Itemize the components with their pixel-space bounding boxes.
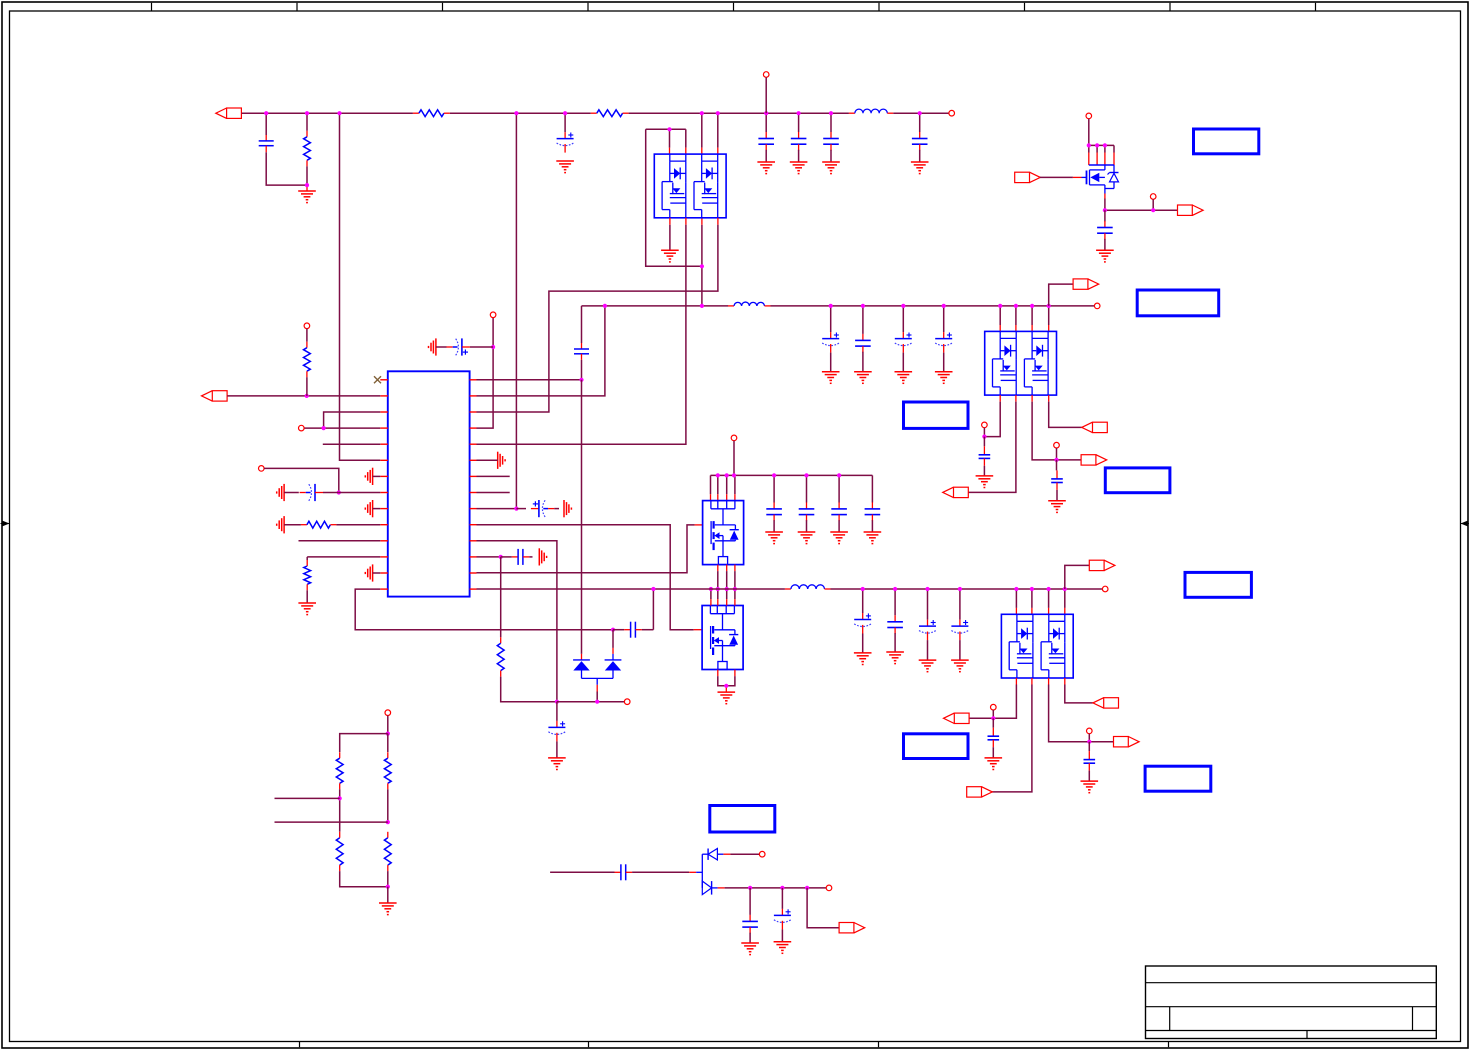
wire bus2 segment 1 [582,305,729,307]
junction left branch tap [338,796,342,800]
wire divider left branch [340,734,388,752]
diode D1 [573,660,590,679]
capacitor C26 (bus3 x894) [887,589,903,652]
junction Q2 fanout b [1095,143,1099,147]
connector Q6 out c [1114,737,1140,747]
junction bus2/C9 [829,304,833,308]
wire bus2 segment 2 [771,305,1095,307]
junction bus3/q d [733,587,737,591]
wire term drop [1152,199,1154,210]
junction VIN/Q1p3 [700,111,704,115]
junction rail/Q4 b [725,473,729,477]
inductor L3 (bus3) [785,585,831,589]
capacitor C7 (Q2 source) [1097,210,1113,250]
wire diode anode bus [582,678,614,701]
terminal above Q6 node c [1087,728,1093,734]
ground below C25 [854,653,872,665]
wire Q2 source to connector [1105,209,1178,211]
connector Q6 out a (left) [944,713,970,723]
ground below C7 [1096,250,1114,262]
wire R11 down x556 [477,541,557,702]
junction bus3/C26 [893,587,897,591]
junction bus3/q b [716,587,720,591]
wire tap a [275,797,340,799]
wire bus3 to Q5 pins [711,589,735,606]
junction R12 [499,555,503,559]
resistor R1 (series, top bus) [413,110,450,117]
wire Q1 gate loop top [646,129,686,154]
capacitor C3 (top bus x765) [758,113,774,162]
capacitor C16 (R4 net) [447,338,494,355]
junction bus3/C25 [861,587,865,591]
junction bus3/C20 [651,587,655,591]
capacitor C30 (below Q6 c) [1084,742,1096,781]
junction D4/out [805,886,809,890]
label box LBL2 [1137,290,1219,316]
ground below C13 [976,476,994,488]
capacitor C32 [742,888,758,943]
ground below C32 [741,943,759,955]
junction L3/L4 [322,426,326,430]
connector cp out [839,923,865,933]
wire Q2 source down [1104,194,1106,211]
connector IC L2 (left) [202,391,228,401]
terminal above Q6 node a [991,704,997,710]
junction Q3 node b [1054,458,1058,462]
ground L8 cap [277,484,299,501]
terminal D3 out [759,851,765,857]
resistor R10 (right upper) [384,734,391,823]
wire rail to Q4 pins [711,475,735,500]
junction rail/C21 [772,473,776,477]
junction bus2/C11 [901,304,905,308]
IC U1 left pin stubs [380,380,388,589]
junction VIN/C6 [918,111,922,115]
capacitor C13 (below node a) [979,437,991,476]
transistor Q3 (dual P-MOSFET pack) [985,331,1057,395]
junction wireC/D2 [611,628,615,632]
connector bus2 out [1073,279,1099,289]
bottom border zone ticks [300,1042,1169,1048]
ground below C27 [919,660,937,672]
wire Q3 pin3b node [1032,395,1081,460]
junction bus2/Q1pin3b [700,304,704,308]
ground below C11 [895,372,913,384]
wire Q1 pin1b to ground [669,218,671,251]
resistor R6 (pin L12 to gnd) [304,560,311,603]
wire D3 out [723,853,759,855]
capacitor C25 (bus3 x862) [854,589,871,653]
junction divider top [386,732,390,736]
wire node y701 [557,701,625,703]
junction VIN/x516 [514,111,518,115]
wire L8 branch [264,468,339,492]
capacitor C23 (mid rail) [831,475,847,532]
ground below C26 [886,652,904,664]
resistor R11 (right lower) [384,832,391,887]
capacitor C29 (below Q6 a) [988,718,1000,758]
resistor R7 (R12 net) [497,557,557,702]
capacitor C31 (series cp) [615,864,697,880]
connector P1 (VIN, left) [216,108,242,118]
ground C18 [539,548,546,565]
ground below R3 [298,191,316,203]
wire R8 stub [477,492,510,494]
ground below C4 [790,162,808,174]
diode D4 (lower) [702,881,717,895]
label box LBL5 [1185,572,1251,597]
terminal above Q3 node a [982,422,988,428]
ground at pin R6 [477,452,506,469]
wire VIN bus segment 3 [629,112,849,114]
wire Q6 pin4b to connector [1065,678,1093,703]
wire L2 [227,395,380,397]
terminal Q2 drain top [1086,113,1092,119]
ground below divider [379,903,397,915]
wire R10 to Q5 gate [477,525,703,630]
connector Q3 out c (left) [1082,422,1108,432]
junction right branch tap [386,820,390,824]
junction x556/merge [555,700,559,704]
wire Q2 drain fanout [1089,145,1114,165]
left border centre arrow [1,521,10,527]
wire Q6 pin3b node [1049,678,1114,742]
capacitor C12 (bus2 x943) [935,306,952,372]
connector bus3 out [1089,560,1115,570]
junction bus3/q a [709,587,713,591]
terminal divider top [385,710,391,716]
title block [1146,966,1437,1039]
terminal bus3 right end [1102,586,1108,592]
right border centre arrow [1461,521,1469,527]
ground below C9 [822,372,840,384]
junction bus3/Q6 p3 [1047,587,1051,591]
capacitor C8 (series x581) [574,306,589,380]
junction VIN/C5 [829,111,833,115]
capacitor C2 (electrolytic x565) [557,113,574,152]
wire L8 to pin [339,492,381,494]
capacitor C28 (bus3 x959) [951,589,968,660]
terminal above C3 [763,72,769,78]
label box LBL7 [1145,766,1211,791]
junction VIN/Q1p4 [716,111,720,115]
wire bus3 segment 1 [477,588,785,590]
junction VIN/C2 [563,111,567,115]
wire L4 [304,427,380,429]
ground below C24 [864,532,882,544]
junction term/source wire [1151,208,1155,212]
wire Q1 pin4b to IC R3 [477,218,718,412]
junction bus3/Q6 p4 [1063,587,1067,591]
junction Q5 gnd [724,684,728,688]
transistor Q4 (high-side N-MOSFET) [703,501,744,565]
top border zone ticks [152,3,1316,11]
resistor R9 (left lower) [336,832,388,887]
junction R3/C1 [305,183,309,187]
ground L10 res [277,516,301,533]
wire Q1 pin2b to IC R5 [477,218,686,444]
junction D4/C32 [748,886,752,890]
ground below C3 [757,162,775,174]
capacitor C19 (x556 to gnd) [548,702,565,758]
label box LBL8 [710,806,775,833]
transistor Q2 (P-MOSFET) [1087,165,1119,194]
wire L14 under IC [355,589,613,630]
wire mid rail drop [733,441,735,476]
junction bus3/q c [725,587,729,591]
junction bus3/Q6 p2 [1030,587,1034,591]
wire Q1 pin3b to bus2 [701,218,703,306]
connector Q3 out b [1081,455,1107,465]
label box LBL4 [1105,468,1170,493]
terminal mid rail [731,435,737,441]
ground below Q1 [661,250,679,262]
capacitor C6 (x919) [912,113,928,162]
wire vertical x516 (VIN to pin R9 net) [515,113,517,508]
resistor R3 (x306 to gnd) [304,113,311,191]
junction L8 [337,490,341,494]
wire Q6 pin1b node [969,678,1017,718]
capacitor C20 (series wireC) [613,622,653,638]
ground below C5 [822,162,840,174]
junction bus2/Q3p2 [1014,304,1018,308]
junction VIN/C4 [797,111,801,115]
junction Q1 gate loop [667,127,671,131]
wire VIN bus segment 1 [242,112,413,114]
inductor L2 (bus2) [728,302,771,306]
junction L2/R4 [305,394,309,398]
ground below C29 [985,758,1003,770]
junction Q6 node c [1087,740,1091,744]
wire Q3 pin2b to connector [968,395,1016,492]
wire term drop b [1056,448,1058,460]
capacitor C1 (x266) [259,113,307,185]
wire R13 to Q4 gate [477,525,703,573]
capacitor C24 (mid rail end) [865,475,881,532]
ground below C12 [935,372,953,384]
wire Q6 pin2b to connector [992,678,1032,792]
wire Q1 gate loop left/bottom [646,129,702,266]
capacitor C14 (below node b) [1051,460,1063,501]
junction bus2/C10 [861,304,865,308]
wire divider top [387,716,389,734]
ground below C21 [765,532,783,544]
terminal top bus right end [949,110,955,116]
wire L11 stub [299,540,381,542]
terminal above node [1150,194,1156,200]
junction R9/x516 [514,507,518,511]
ground C16 [429,338,447,355]
inductor L1 (top bus) [849,109,893,113]
wire L12 [307,557,380,560]
wire divider to ground [387,887,389,903]
terminal y701 end [624,699,630,705]
junction VIN/C1 [264,111,268,115]
junction rail/C22 [804,473,808,477]
label box LBL1 [1194,129,1259,154]
junction bus3/C27 [925,587,929,591]
terminal bus2 right end [1094,303,1100,309]
transistor Q6 (dual P-MOSFET pack) [1001,614,1073,678]
no-connect X at pin L1 [374,376,381,383]
wire Q3 pin1b node [984,395,1000,437]
wire term to C3 [765,77,767,113]
ground below C14 [1048,501,1066,513]
terminal D4 out [826,885,832,891]
wire VIN bus segment 2 [450,112,591,114]
junction VIN/x339 [337,111,341,115]
wire mid rail [711,474,873,476]
wire bus3 segment 2 [831,588,1103,590]
ground below C2 [556,161,574,173]
junction bus3/C28 [958,587,962,591]
connector Q2 gate [1015,172,1041,182]
resistor R5 (pin L10) [301,521,380,528]
terminal above Q3 node b [1054,442,1060,448]
capacitor C18 (pin R12) [501,549,533,565]
wire bus3 to connector [1065,565,1090,589]
junction Q1 loop/pin3b [700,264,704,268]
capacitor C22 (mid rail) [799,475,815,532]
ground at pin L13 [365,564,380,581]
IC U1 right pin stubs [470,380,477,589]
terminal L4 [299,425,305,431]
capacitor C11 (bus2 x902) [895,306,912,372]
junction Q2 source node [1103,208,1107,212]
resistor R8 (left upper) [336,752,343,832]
wire term drop c [992,710,994,718]
label box LBL6 [904,734,969,759]
capacitor C5 (top bus x830) [823,113,839,162]
junction Q6 node a [991,716,995,720]
wire VIN to Q1 pin4 [717,113,719,154]
wire VIN bus segment 4 [893,112,949,114]
wire bus3 to Q6 pins [1016,589,1064,614]
junction D4/C33 [780,886,784,890]
capacitor C4 (top bus x798) [791,113,807,162]
label box LBL3 [904,402,969,428]
ground below C30 [1081,781,1099,793]
junction rail/C23 [837,473,841,477]
junction bus2/R2 [603,304,607,308]
connector Q3 out e (left) [943,487,969,497]
wire IC R1 to C8 [477,379,582,381]
connector Q6 out d (left) [1093,698,1119,708]
junction bus3/Q6 p1 [1014,587,1018,591]
wire L5 stub [323,443,381,445]
ground at pin L9 [365,500,380,517]
wire R7 stub [477,475,510,477]
wire Q2 drain [1088,119,1090,146]
junction bus2/Q3p1 [998,304,1002,308]
connector Q6 out b [967,787,993,797]
IC U1 [388,371,470,596]
resistor R4 (to pin L2) [304,329,311,396]
ground below C23 [830,532,848,544]
wire Q2 gate [1040,176,1087,178]
wire R12 [477,556,501,558]
wire L3 [324,412,381,428]
junction rail/Q4 a [716,473,720,477]
wire bus2 to output connector [1049,284,1073,306]
junction VIN/C3 [764,111,768,115]
wire term drop d [1088,734,1090,742]
ground below R6 [298,603,316,615]
wire VIN to IC pin6 (x339) [340,113,381,460]
junction R1 net [579,378,583,382]
wire bus2 to Q3 pins [1000,306,1048,332]
wire Q3 pin4b to connector [1049,395,1082,427]
wire cp out [807,888,839,928]
terminal above R4 [304,323,310,329]
ground below C10 [854,372,872,384]
ground at pin L7 [365,468,380,485]
junction bus2/Q3p4 [1047,304,1051,308]
ground below C22 [798,532,816,544]
terminal R4 net top [490,312,496,318]
ground below C19 [548,758,566,770]
ground below C28 [951,660,969,672]
wire Q4 bottom pins to bus3 [718,565,735,589]
junction rail/Q4 c [732,473,736,477]
wire IC R2 to bus2 [477,306,605,396]
capacitor C17 (pin R9) [516,500,559,517]
capacitor C9 (bus2 x830) [822,306,839,372]
wire tap b [275,821,388,823]
junction Q3 node a [982,435,986,439]
ground below C33 [774,942,792,954]
capacitor C33 (electrolytic) [774,888,791,942]
junction bus2/Q3p3 [1030,304,1034,308]
wire C20 to bus3 [652,589,654,630]
diode D2 [605,630,622,679]
wire R9 [477,508,517,510]
junction bus2/C12 [942,304,946,308]
capacitor C27 (bus3 x927) [919,589,936,660]
wire D4 out [718,887,827,889]
junction Q2 fanout a [1087,143,1091,147]
junction Q2 fanout c [1103,143,1107,147]
ground below C6 [911,162,929,174]
capacitor C15 (pin L8) [300,484,339,501]
wire R4 net [477,318,494,429]
connector Q2 source out [1178,205,1204,215]
transistor Q1 (dual P-MOSFET pack) [654,154,726,218]
junction R4 net / C16 [491,345,495,349]
capacitor C21 (mid rail) [766,475,782,532]
terminal L8 branch [259,466,265,472]
wire VIN to Q1 pin3 [701,113,703,154]
junction divider bottom [386,885,390,889]
junction diode/y701 [595,700,599,704]
wire Q5 bottom to ground [718,670,735,693]
wire x581 down to D1 [581,380,583,660]
wire cp input [550,871,614,873]
capacitor C10 (bus2 x862) [855,306,871,372]
resistor R2 (series, top bus) [591,110,629,117]
diode D3 (upper) [696,849,723,888]
junction VIN/R3 [305,111,309,115]
ground C17 [564,500,571,517]
ground below Q5 [718,692,736,704]
wire term drop a [983,428,985,437]
transistor Q5 (low-side N-MOSFET) [702,606,743,670]
